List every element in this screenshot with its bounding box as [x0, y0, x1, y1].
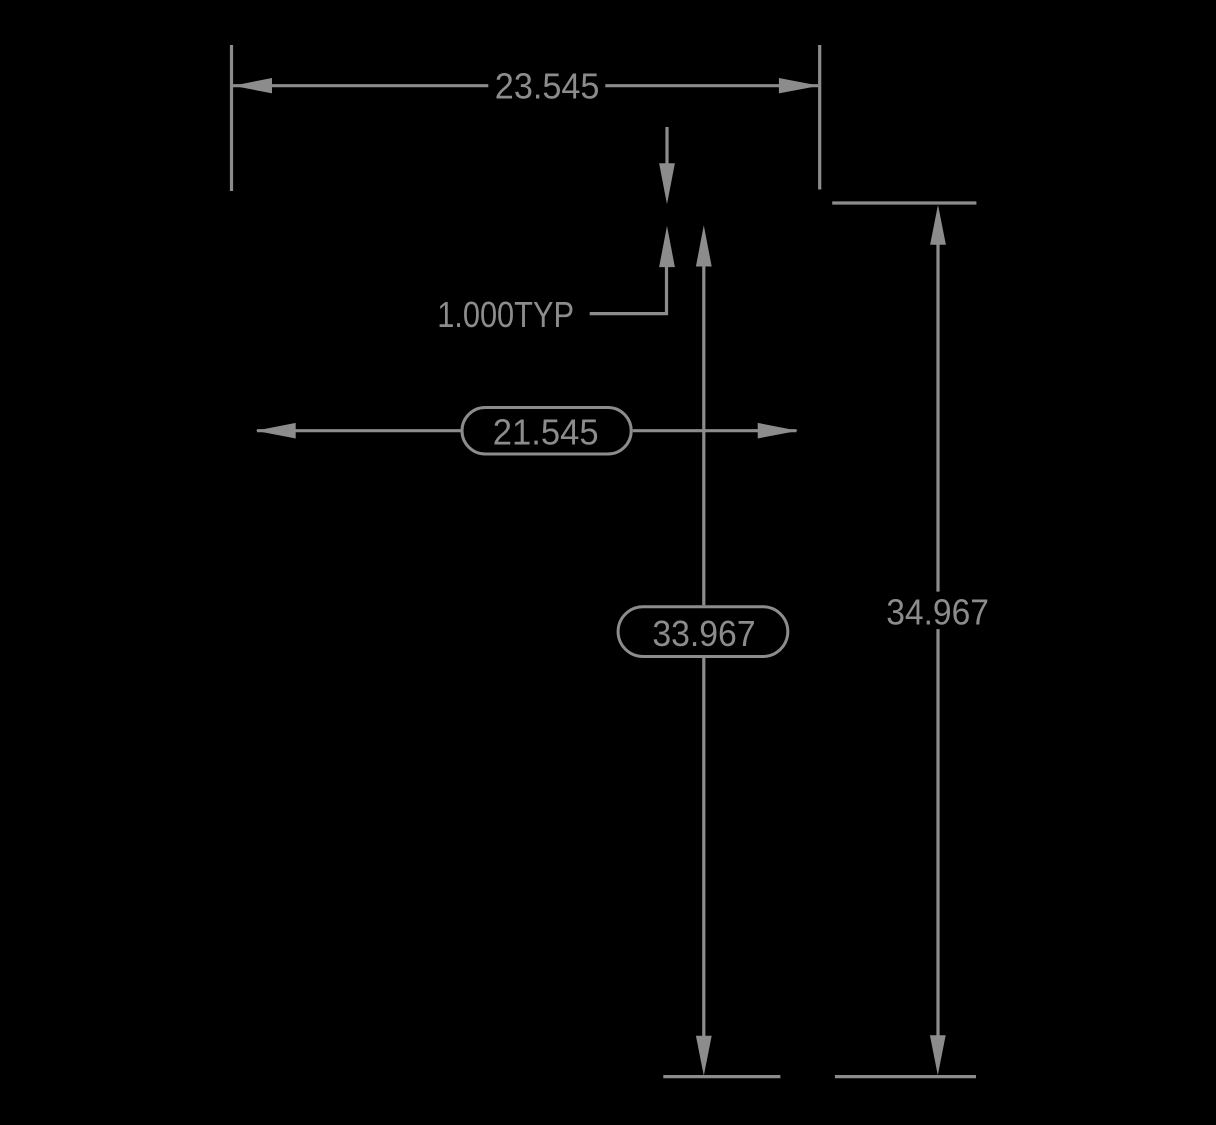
svg-text:23.545: 23.545	[495, 65, 600, 106]
arrowhead 1.000TYP pointing down	[659, 163, 675, 204]
arrowhead 33.967 pointing up	[696, 225, 712, 266]
svg-text:21.545: 21.545	[493, 411, 599, 452]
arrowhead 23.545 right	[779, 78, 820, 93]
arrowhead 21.545 left	[255, 423, 295, 439]
extension line bottom under 33.967	[663, 1075, 780, 1078]
leader line 1.000TYP (vertical + horizontal elbow)	[590, 266, 667, 314]
dimension line 33.967 lower segment	[702, 658, 705, 1036]
dimension line 21.545 left segment	[257, 429, 461, 432]
arrowhead 34.967 pointing up	[930, 205, 946, 245]
extension line bottom for 34.967	[835, 1075, 976, 1078]
dimension line 34.967 lower segment	[936, 629, 939, 1036]
svg-text:34.967: 34.967	[886, 591, 989, 632]
dimension line 33.967 upper segment	[702, 266, 705, 605]
arrowhead 34.967 pointing down	[930, 1035, 946, 1075]
arrowhead 21.545 right	[758, 423, 798, 439]
extension line top for 34.967	[832, 201, 976, 204]
extension line left (23.545 width, left side)	[230, 45, 233, 191]
arrowhead 1.000TYP pointing up	[659, 226, 675, 267]
stadium capsule 21.545	[462, 408, 631, 455]
svg-text:1.000TYP: 1.000TYP	[437, 294, 574, 335]
arrowhead 23.545 left	[233, 78, 272, 93]
leader line down-arrow (1.000TYP upper)	[665, 127, 668, 168]
extension line right (23.545 width, right side)	[818, 45, 821, 190]
dimension line 21.545 right segment	[633, 429, 797, 432]
dimension line 23.545 left segment	[233, 84, 488, 87]
dimension line 23.545 right segment	[605, 84, 818, 87]
svg-text:33.967: 33.967	[652, 613, 755, 654]
stadium capsule 33.967	[618, 607, 788, 657]
product panel (black rectangle, invisible on black background)	[229, 45, 988, 1079]
dimension line 34.967 upper segment	[936, 244, 939, 592]
arrowhead 33.967 pointing down	[696, 1036, 712, 1076]
